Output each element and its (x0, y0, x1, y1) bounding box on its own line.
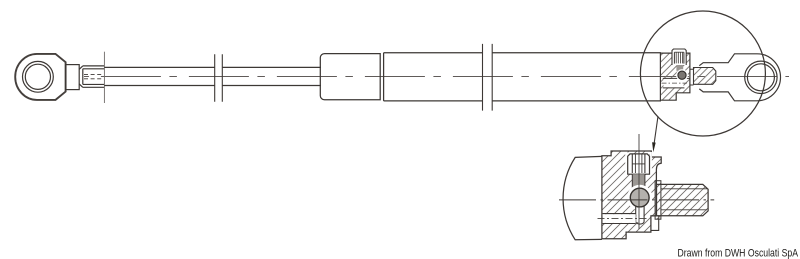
svg-text:Drawn from DWH Osculati SpA: Drawn from DWH Osculati SpA (678, 247, 799, 259)
